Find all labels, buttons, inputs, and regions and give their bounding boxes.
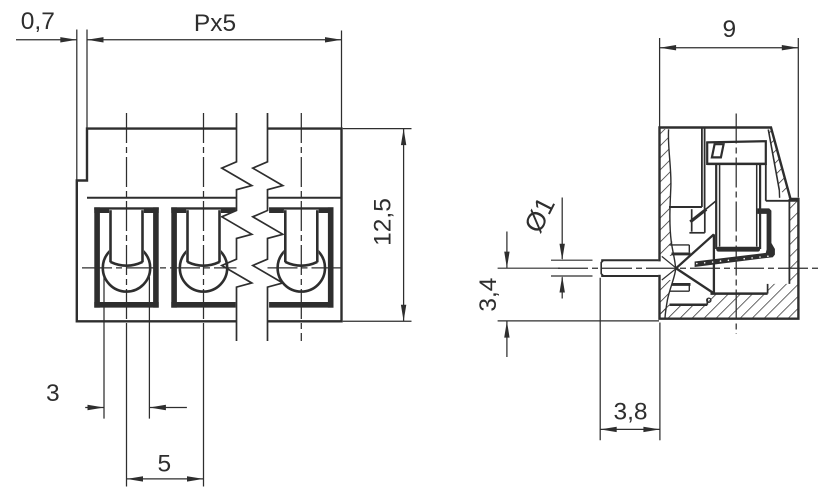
svg-text:9: 9 <box>722 16 736 43</box>
clamp window 1 frame <box>94 207 158 213</box>
chamber right wall <box>765 164 767 201</box>
dimension 3,8 lines <box>599 278 601 441</box>
screw slot <box>712 144 724 157</box>
dimension 0,7 / Px5 lines <box>16 39 77 41</box>
dimension 3,4 lines <box>498 267 560 269</box>
wire funnel upper cone <box>676 234 714 268</box>
dimension 12,5 line <box>403 129 405 322</box>
lower ledge thin <box>670 290 690 292</box>
left wall hatch upper <box>660 129 676 256</box>
chamber bottom step <box>669 206 702 208</box>
clamp cage body <box>695 208 775 267</box>
side view outline <box>660 128 799 319</box>
FRONT VIEW terminal block, outline <box>77 129 342 322</box>
extension line right face up <box>341 31 343 129</box>
screw 1 and wire hole circle <box>103 244 150 291</box>
break channel blank-out <box>222 113 283 341</box>
dimension 3 lines <box>85 407 104 409</box>
left wall hatch lower <box>660 280 674 319</box>
floor and right wall hatch <box>660 199 799 319</box>
extension line upper-left face <box>86 30 88 129</box>
upper ledge thick <box>672 252 691 255</box>
clamp window 2 frame (cut by break) <box>171 207 235 213</box>
dimension 5 line <box>127 478 204 480</box>
screw tip <box>716 247 760 252</box>
svg-text:3,8: 3,8 <box>613 398 647 425</box>
screw 3 and wire hole circle <box>278 244 325 291</box>
screw 2 and wire hole circle <box>180 244 227 291</box>
dimension diameter 1 arrows <box>561 198 563 260</box>
screw shank thread roots <box>719 165 721 247</box>
wire entry hole blank <box>657 261 675 274</box>
roll pin <box>707 298 711 302</box>
clamp upper-left flange <box>690 209 706 222</box>
screw head <box>707 141 766 164</box>
svg-text:5: 5 <box>157 451 171 478</box>
dimension 9 line <box>660 47 799 49</box>
floor step left <box>670 304 708 307</box>
funnel mouth face <box>713 234 715 293</box>
dimension 12,5 extension lines <box>343 128 412 130</box>
break zigzag line left <box>222 113 252 341</box>
inner slant edge <box>768 130 779 191</box>
svg-text:0,7: 0,7 <box>21 8 55 35</box>
horizontal centerline front view <box>82 267 237 269</box>
top-right slant wall hatch <box>768 128 789 198</box>
dimension 9 extension lines <box>659 38 661 128</box>
seat line <box>766 200 798 202</box>
screw axis centerline <box>735 114 737 335</box>
lower ledge thick <box>672 283 691 286</box>
svg-text:3,4: 3,4 <box>475 278 502 312</box>
vertical centerline position 2 <box>203 113 205 326</box>
pin axis centerline <box>558 267 820 269</box>
vertical centerline position 1 <box>126 113 128 326</box>
moulding relief wavy line <box>665 129 676 318</box>
chamber left wall <box>701 129 703 208</box>
solder pin <box>601 259 658 261</box>
screw shank thread crests <box>715 164 717 249</box>
entry cone edges <box>662 256 676 267</box>
extension line lower-left face <box>76 30 78 180</box>
break zigzag line right <box>253 113 283 341</box>
pin edge extension ticks <box>551 259 593 261</box>
upper ledge thin <box>670 244 690 246</box>
wire funnel lower cone <box>676 268 714 293</box>
svg-text:Px5: Px5 <box>194 10 236 37</box>
clamp serration dots <box>696 263 698 265</box>
clamp sight window <box>691 209 693 232</box>
clamp window 3 frame (cut by break) <box>269 207 333 213</box>
floor step middle <box>711 292 768 295</box>
front face shoulder line <box>87 197 342 199</box>
svg-text:12,5: 12,5 <box>370 198 397 246</box>
svg-text:3: 3 <box>46 380 60 407</box>
right wall inner face <box>788 199 790 284</box>
hole diameter extension lines <box>103 277 105 419</box>
vertical centerline position 3 <box>300 113 302 341</box>
